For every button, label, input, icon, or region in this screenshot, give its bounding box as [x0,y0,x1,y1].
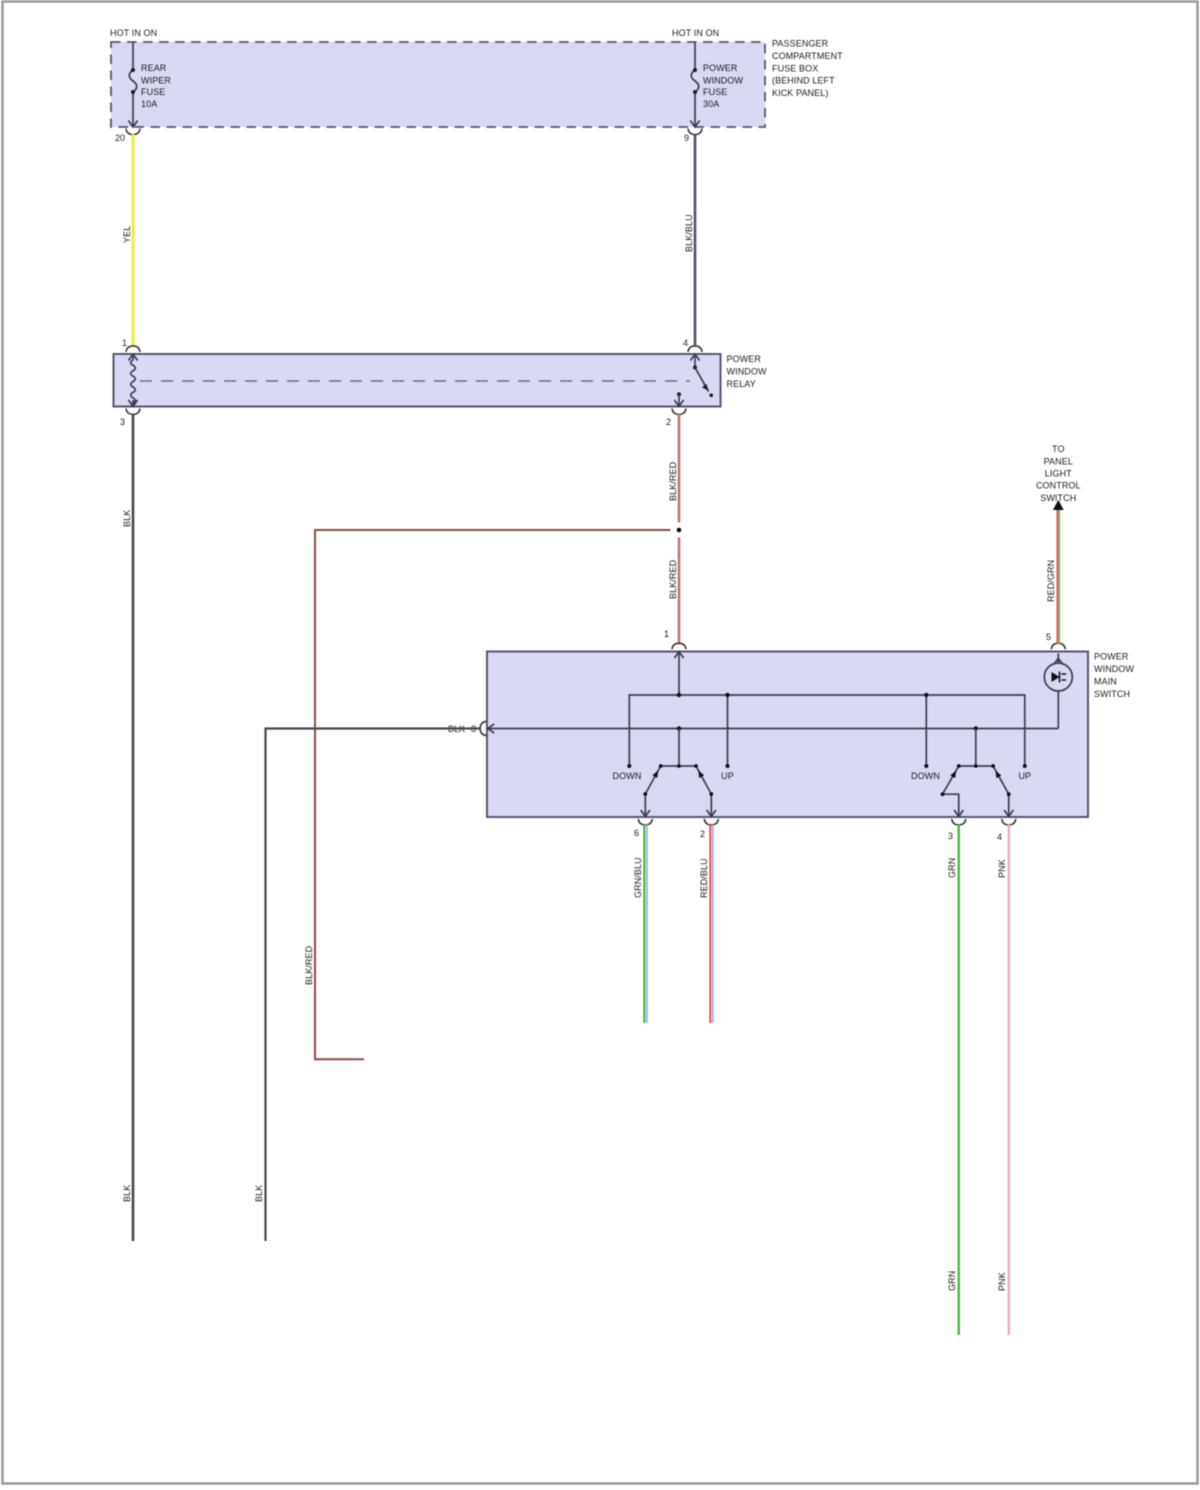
relay pin 4 connector [688,346,702,352]
svg-text:WINDOW: WINDOW [727,367,767,377]
svg-text:9: 9 [684,133,689,143]
svg-text:1: 1 [122,338,127,348]
svg-text:REAR: REAR [141,63,167,73]
svg-text:RELAY: RELAY [727,379,756,389]
svg-text:HOT IN ON: HOT IN ON [110,28,157,38]
svg-text:PNK: PNK [997,1272,1007,1291]
wire RED/GRN main pin5 to panel light arrow [1058,509,1060,644]
main switch pin 3 connector [952,819,966,825]
wire BLK/RED relay pin2 to node [678,414,681,523]
relay pin 2 connector [672,408,686,414]
wire BLK/BLU fuse9 to relay pin4 [694,134,697,345]
svg-text:1: 1 [664,629,669,639]
wire BLK main pin8 to junction box pin5 [266,729,481,1242]
svg-text:6: 6 [634,828,639,838]
main switch pin 6 connector [638,819,652,825]
svg-text:POWER: POWER [727,354,762,364]
svg-text:UP: UP [1018,771,1031,781]
svg-text:FUSE: FUSE [141,87,165,97]
svg-text:FUSE: FUSE [703,87,727,97]
main switch pin 4 connector [1002,819,1016,825]
svg-text:UP: UP [721,771,734,781]
svg-text:LIGHT: LIGHT [1045,469,1072,479]
main switch illumination lamp [1044,654,1072,729]
relay switch [674,354,713,406]
relay pin 1 connector [126,346,140,352]
svg-text:BLK: BLK [122,510,132,527]
svg-text:BLK/RED: BLK/RED [668,559,678,599]
power window main switch [487,652,1134,818]
svg-text:BLK: BLK [122,1185,132,1202]
wire BLK/RED branch to right front switch pin3 [315,530,671,1059]
wire RED/BLU main pin2 to rf switch pin4 [710,824,713,1023]
svg-text:2: 2 [666,417,671,427]
svg-text:10A: 10A [141,99,157,109]
main switch ground bus from pin 8 [487,728,1058,730]
wire YEL fuse20 to relay pin1 [132,134,135,345]
main switch pin 1 connector [672,643,686,649]
passenger compartment fuse box [110,28,843,127]
svg-text:HOT IN ON: HOT IN ON [672,28,719,38]
relay coil [128,354,137,406]
svg-text:BLK: BLK [254,1185,264,1202]
svg-text:2: 2 [700,829,705,839]
svg-text:SWITCH: SWITCH [1094,689,1130,699]
svg-text:FUSE BOX: FUSE BOX [772,64,818,74]
svg-text:KICK PANEL): KICK PANEL) [772,88,828,98]
wire GRN/BLU main pin6 to rf switch pin2 [644,824,647,1023]
svg-text:POWER: POWER [703,63,738,73]
to panel light control switch arrow (top right) [1053,500,1064,510]
wire BLK relay pin3 to junction box pin7 [132,414,135,1241]
main switch pin 1 entry arrow and lead [674,652,683,695]
rear wiper fuse 10A [128,42,137,127]
svg-text:5: 5 [1046,632,1051,642]
svg-text:3: 3 [948,831,953,841]
power window fuse 30A [690,42,699,127]
svg-text:CONTROL: CONTROL [1036,481,1081,491]
svg-text:MAIN: MAIN [1094,677,1117,687]
main switch pin 8 exit arrow [488,724,494,733]
svg-text:3: 3 [120,417,125,427]
node junction BLK/RED [677,528,682,533]
svg-text:4: 4 [683,338,688,348]
svg-text:DOWN: DOWN [911,771,940,781]
main switch power bus from pin 1 [629,695,1025,766]
svg-text:20: 20 [115,133,125,143]
power window relay [114,354,767,407]
wire PNK main pin4 to driver motor pin1 [1008,824,1010,1335]
svg-text:WINDOW: WINDOW [703,76,743,86]
wire BLK/RED node to main switch pin1 [678,538,681,645]
svg-text:BLK/RED: BLK/RED [304,945,314,985]
svg-text:GRN/BLU: GRN/BLU [633,857,643,898]
svg-text:RED/BLU: RED/BLU [699,858,709,898]
pin 9 connector [688,129,702,135]
svg-text:GRN: GRN [947,1271,957,1291]
svg-text:4: 4 [997,832,1002,842]
svg-text:PNK: PNK [997,859,1007,878]
svg-text:SWITCH: SWITCH [1040,493,1076,503]
svg-text:(BEHIND LEFT: (BEHIND LEFT [772,76,835,86]
svg-text:WIPER: WIPER [141,76,171,86]
svg-text:WINDOW: WINDOW [1094,664,1134,674]
svg-text:COMPARTMENT: COMPARTMENT [772,51,843,61]
svg-text:TO: TO [1052,444,1065,454]
relay pin 3 connector [126,408,140,414]
svg-text:DOWN: DOWN [613,771,642,781]
main switch pin 8 connector [480,722,486,736]
svg-text:YEL: YEL [122,226,132,243]
svg-text:RED/GRN: RED/GRN [1046,560,1056,602]
svg-text:BLK/RED: BLK/RED [668,461,678,501]
wire GRN main pin3 to driver motor pin2 [958,824,960,1335]
pin 20 connector [126,129,140,135]
relay dashed line [140,380,690,382]
svg-text:POWER: POWER [1094,652,1129,662]
svg-text:PASSENGER: PASSENGER [772,39,829,49]
main switch pin 2 connector [704,819,718,825]
svg-text:BLK/BLU: BLK/BLU [684,214,694,252]
main switch pin 5 connector [1051,643,1065,649]
svg-text:PANEL: PANEL [1044,456,1073,466]
svg-text:30A: 30A [703,99,719,109]
svg-text:GRN: GRN [947,858,957,878]
